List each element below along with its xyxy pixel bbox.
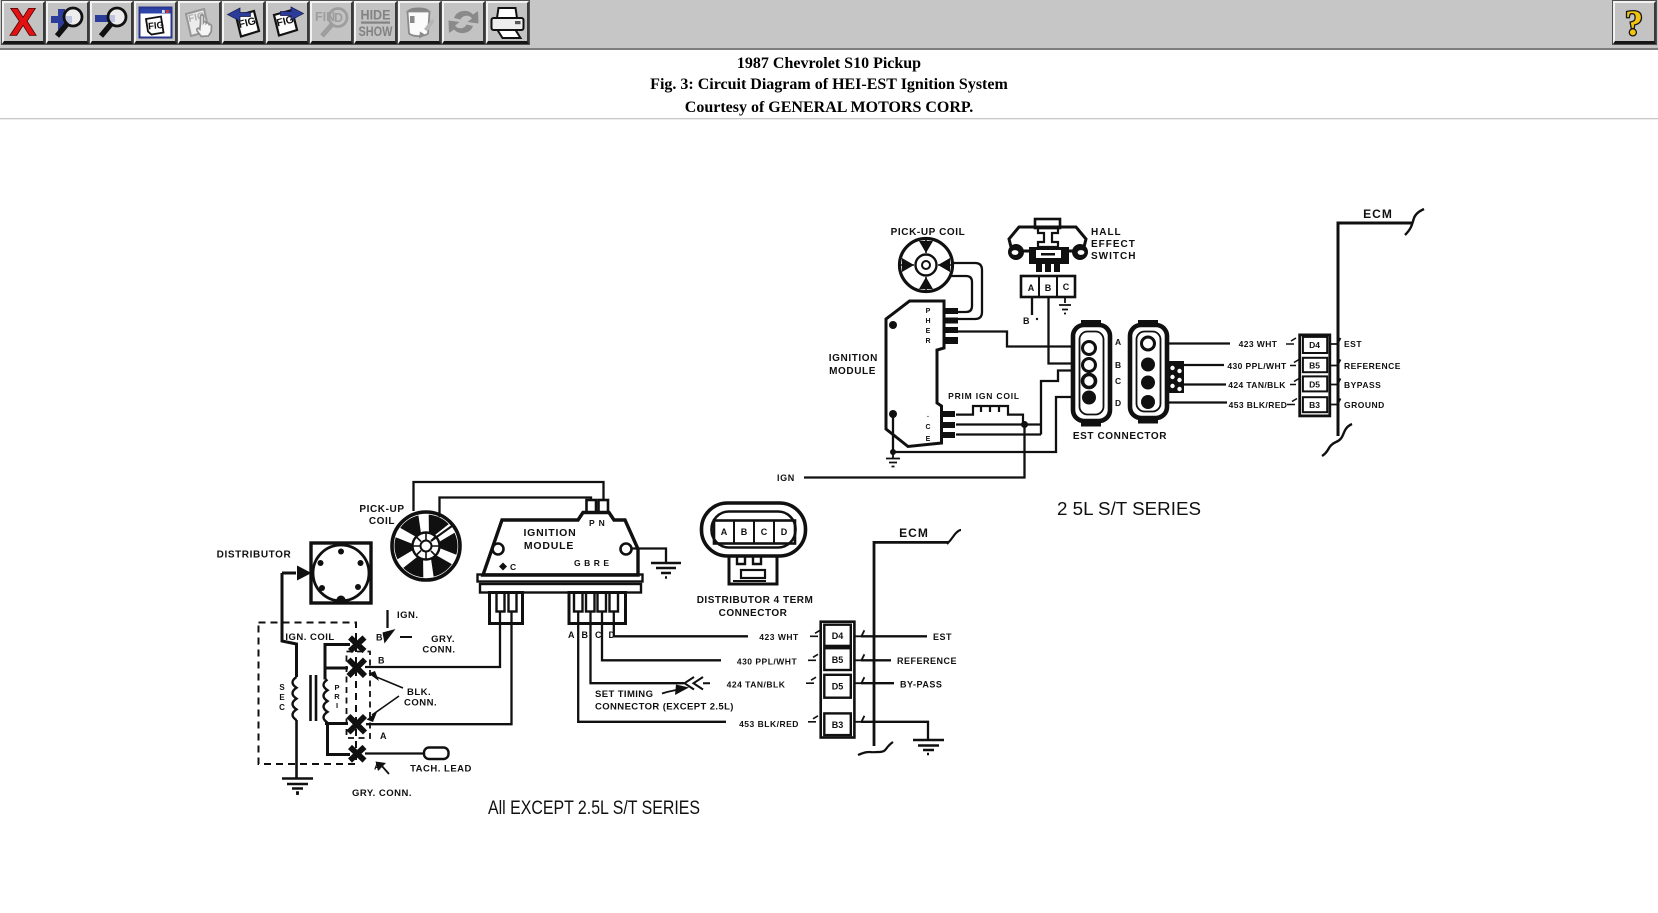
wire 430 PPL/WHT (2.5L)	[1184, 364, 1224, 366]
svg-text:E: E	[926, 328, 931, 335]
wire ticks before pin boxes (2.5L)	[1286, 338, 1299, 405]
svg-text:A: A	[1028, 283, 1035, 293]
right pins A B C D	[574, 593, 583, 612]
svg-text:CONN.: CONN.	[422, 645, 455, 656]
coil core	[311, 675, 317, 721]
ECM pin boxes D4 B5 D5 B3 (exc 2.5L)	[824, 625, 851, 735]
wire distributor down to ign coil	[282, 573, 297, 677]
hall effect switch	[1008, 219, 1088, 272]
pin function labels (2.5L)	[1344, 339, 1401, 410]
wire REFERENCE row	[861, 659, 891, 661]
svg-text:ECM: ECM	[899, 526, 929, 540]
wire pri bottom to GRY CONN A	[328, 724, 351, 755]
distributor 4 term connector	[702, 503, 806, 584]
module mounting hole (bottom)	[889, 410, 897, 418]
wire 423 WHT (exc 2.5L) from pin D	[614, 612, 748, 637]
svg-text:E: E	[926, 436, 931, 443]
svg-text:C: C	[761, 527, 768, 537]
ECM bracket (2.5L)	[1338, 223, 1413, 436]
blk conn pointer arrows	[372, 676, 403, 715]
svg-text:COIL: COIL	[369, 516, 395, 527]
wire module C pin node	[956, 371, 1073, 435]
module pins P N	[587, 500, 597, 513]
ECM connector lock block	[1167, 361, 1184, 393]
svg-text:CONNECTOR: CONNECTOR	[719, 608, 788, 619]
svg-text:B: B	[376, 633, 383, 643]
wire 430 PPL/WHT (exc 2.5L) from pin C	[602, 612, 721, 661]
svg-text:EST: EST	[1344, 339, 1362, 349]
svg-text:GBRE: GBRE	[574, 558, 613, 568]
left pin connector shell	[490, 593, 523, 624]
ground symbol below module	[886, 452, 900, 467]
left pins	[497, 593, 505, 612]
svg-text:B: B	[1023, 316, 1030, 326]
pin letters A B C D (EST)	[1115, 337, 1121, 408]
svg-text:B: B	[378, 656, 385, 666]
svg-text:PRIM IGN COIL: PRIM IGN COIL	[948, 391, 1020, 401]
svg-text:IGN: IGN	[777, 473, 795, 483]
svg-text:D: D	[1115, 398, 1121, 408]
svg-text:A: A	[1115, 337, 1121, 347]
wire module to ground (right)	[632, 549, 666, 563]
wire labels (2.5L)	[1227, 339, 1287, 410]
svg-text:EST CONNECTOR: EST CONNECTOR	[1073, 431, 1167, 442]
ECM break squiggle (bottom)	[1322, 424, 1352, 456]
IGN feed wire with arrow	[386, 610, 388, 628]
right pin connector shell	[569, 593, 626, 624]
svg-text:423 WHT: 423 WHT	[759, 632, 799, 642]
wire module left pin 2 to BLK CONN A	[366, 612, 512, 725]
svg-text:I: I	[336, 701, 338, 710]
wire hall B to EST connector B	[1049, 297, 1074, 364]
svg-text:All EXCEPT 2.5L S/T SERIES: All EXCEPT 2.5L S/T SERIES	[488, 797, 700, 819]
svg-text:.: .	[927, 412, 929, 419]
blk connector A (bowtie)	[349, 716, 366, 733]
label + C	[499, 563, 507, 571]
svg-text:B5: B5	[832, 655, 844, 665]
module ground pin wire	[893, 397, 1073, 452]
gry conn A pointer arrow	[381, 765, 389, 774]
wire 424 TAN/BLK (exc 2.5L) from pin B	[591, 612, 685, 684]
svg-text:D5: D5	[832, 682, 844, 692]
svg-text:453 BLK/RED: 453 BLK/RED	[1229, 400, 1288, 410]
ECM break slash (exc 2.5L)	[947, 530, 961, 544]
svg-text:430 PPL/WHT: 430 PPL/WHT	[737, 657, 798, 667]
svg-text:S: S	[279, 683, 285, 692]
label GRY. CONN. (top)	[422, 634, 455, 656]
gry connector A (bowtie)	[350, 747, 365, 761]
ECM bracket (exc 2.5L)	[874, 542, 948, 746]
blk conn dashed box	[347, 652, 371, 739]
svg-text:TACH. LEAD: TACH. LEAD	[410, 764, 472, 775]
distributor	[311, 543, 371, 605]
svg-text:D4: D4	[1309, 340, 1320, 350]
svg-text:PICK-UP: PICK-UP	[359, 504, 404, 515]
label HALL EFFECT SWITCH	[1091, 227, 1136, 262]
svg-text:MODULE: MODULE	[829, 366, 876, 377]
svg-text:424 TAN/BLK: 424 TAN/BLK	[1228, 380, 1286, 390]
wire IGN feed	[804, 425, 1025, 478]
wire GROUND row to ground	[861, 722, 928, 739]
junction dot module ground	[890, 449, 896, 455]
wire pick-up coil to module pin N (outer)	[414, 482, 604, 511]
svg-text:R: R	[334, 692, 340, 701]
svg-text:REFERENCE: REFERENCE	[897, 656, 957, 666]
secondary winding	[293, 677, 297, 720]
ignition module (exc 2.5L)	[483, 513, 638, 576]
ECM break squiggle (exc 2.5L)	[858, 742, 893, 755]
wire 423 WHT (2.5L)	[1167, 342, 1230, 344]
svg-text:B3: B3	[1309, 400, 1320, 410]
svg-text:DISTRIBUTOR: DISTRIBUTOR	[217, 550, 292, 561]
label IGNITION MODULE (2.5L)	[829, 353, 878, 377]
ground symbol (exc 2.5L ECM)	[913, 740, 944, 754]
pick-up coil (exc 2.5L)	[392, 512, 460, 580]
wire 424 TAN/BLK (2.5L)	[1184, 383, 1226, 385]
svg-text:IGNITION: IGNITION	[829, 353, 878, 364]
svg-text:GRY.: GRY.	[431, 634, 455, 645]
svg-text:IGN. COIL: IGN. COIL	[285, 632, 334, 643]
svg-text:EST: EST	[933, 632, 952, 642]
pin function labels (exc 2.5L)	[897, 632, 957, 690]
svg-text:E: E	[279, 693, 285, 702]
svg-text:BY-PASS: BY-PASS	[900, 680, 942, 690]
svg-text:REFERENCE: REFERENCE	[1344, 361, 1401, 371]
wire pri tap to BLK CONN B	[325, 667, 348, 670]
svg-text:B: B	[1115, 360, 1121, 370]
label SET TIMING CONNECTOR	[595, 689, 734, 713]
svg-text:P: P	[926, 308, 931, 315]
svg-text:IGN.: IGN.	[397, 610, 419, 621]
label BLK. CONN.	[404, 687, 437, 709]
svg-text:EFFECT: EFFECT	[1091, 239, 1136, 250]
wire module R pin to EST connector A	[957, 332, 1073, 347]
wire 453 BLK/RED (exc 2.5L) from pin A	[578, 612, 726, 722]
svg-text:430 PPL/WHT: 430 PPL/WHT	[1227, 361, 1287, 371]
ign coil dashed box	[259, 623, 357, 765]
ECM connector (2.5L)	[1130, 322, 1167, 422]
svg-text:MODULE: MODULE	[524, 540, 574, 552]
wire pri top to GRY CONN B	[325, 645, 350, 680]
svg-text:BYPASS: BYPASS	[1344, 380, 1381, 390]
pin function hooks (2.5L)	[1330, 338, 1341, 405]
wire labels (exc 2.5L)	[727, 632, 799, 729]
wire EST row to label	[861, 635, 927, 637]
svg-text:C: C	[925, 424, 930, 431]
wire module left pin 1 to BLK CONN B	[365, 612, 500, 668]
svg-text:H: H	[925, 318, 930, 325]
svg-text:GROUND: GROUND	[1344, 400, 1385, 410]
set timing pointer arrow	[662, 690, 676, 694]
svg-text:CONNECTOR (EXCEPT 2.5L): CONNECTOR (EXCEPT 2.5L)	[595, 702, 734, 713]
ground stub below hall C	[1059, 297, 1071, 314]
svg-text:A: A	[721, 527, 728, 537]
svg-text:C: C	[279, 703, 285, 712]
svg-text:C: C	[1063, 282, 1070, 292]
ground symbol below ign coil	[282, 779, 313, 796]
wire pick-up coil to module pin (inner)	[949, 276, 972, 312]
wire pick-up coil to module pin P (inner)	[440, 498, 592, 518]
prim ign coil winding	[956, 406, 1023, 425]
svg-text:D: D	[781, 527, 788, 537]
set timing connector chevrons	[685, 677, 711, 690]
blk connector B (bowtie)	[349, 660, 366, 677]
wire distributor feed with arrow	[282, 572, 296, 575]
svg-text:C: C	[1115, 376, 1121, 386]
pin function hooks (exc 2.5L)	[854, 630, 864, 722]
label S E C	[279, 683, 285, 712]
wire hall A to B+ stub	[1031, 297, 1033, 315]
tach lead wire	[365, 752, 424, 754]
module mounting hole (top)	[889, 321, 897, 329]
svg-text:SWITCH: SWITCH	[1091, 251, 1136, 262]
label IGNITION MODULE (exc 2.5L)	[523, 527, 576, 552]
module pins C E (lower)	[942, 411, 955, 438]
wire pri bottom to BLK CONN A	[325, 722, 348, 725]
svg-text:D5: D5	[1309, 380, 1320, 390]
svg-text:B3: B3	[832, 720, 844, 730]
svg-text:C: C	[510, 562, 516, 572]
label P R I	[334, 683, 340, 710]
svg-text:B: B	[1045, 283, 1052, 293]
svg-text:PICK-UP COIL: PICK-UP COIL	[891, 227, 966, 238]
label DISTRIBUTOR 4 TERM CONNECTOR	[697, 595, 814, 619]
svg-text:GRY. CONN.: GRY. CONN.	[352, 788, 412, 799]
module mounting plate upper	[478, 575, 643, 582]
svg-text:423 WHT: 423 WHT	[1239, 339, 1278, 349]
svg-text:424 TAN/BLK: 424 TAN/BLK	[727, 680, 786, 690]
svg-text:IGNITION: IGNITION	[523, 527, 576, 539]
hall connector A-B-C box	[1021, 276, 1075, 297]
svg-text:ECM: ECM	[1363, 207, 1393, 221]
wire ticks before pin boxes (exc 2.5L)	[806, 630, 820, 722]
label PICK-UP COIL (exc 2.5L)	[359, 504, 404, 527]
module mounting plate lower	[480, 584, 641, 593]
svg-text:CONN.: CONN.	[404, 698, 437, 709]
tach lead terminal	[424, 748, 449, 760]
svg-text:PN: PN	[589, 518, 609, 528]
svg-text:B: B	[741, 527, 748, 537]
svg-text:453 BLK/RED: 453 BLK/RED	[739, 719, 799, 729]
module pins P H E R	[944, 308, 958, 344]
wire 453 BLK/RED (2.5L)	[1167, 401, 1227, 403]
svg-text:P: P	[334, 683, 339, 692]
svg-text:2 5L S/T SERIES: 2 5L S/T SERIES	[1057, 499, 1201, 519]
module hole left	[493, 544, 504, 555]
junction dot prim coil node	[1021, 421, 1028, 428]
svg-text:BLK.: BLK.	[407, 687, 431, 698]
svg-text:SET TIMING: SET TIMING	[595, 689, 653, 700]
ECM break slash (top)	[1405, 209, 1424, 235]
svg-text:R: R	[925, 338, 930, 345]
ground symbol right of module	[651, 563, 681, 578]
EST connector (harness side)	[1073, 322, 1110, 425]
module hole right	[621, 544, 632, 555]
svg-text:D4: D4	[832, 631, 844, 641]
wire pick-up coil to module pin (outer)	[951, 263, 982, 319]
pick-up coil (2.5L)	[900, 239, 953, 292]
primary winding	[324, 680, 328, 723]
wire BY-PASS row	[861, 682, 894, 684]
ECM pin box housing (exc 2.5L)	[821, 622, 855, 738]
wire sec winding to ground	[295, 720, 298, 778]
ignition module (2.5L)	[886, 301, 944, 447]
svg-text:DISTRIBUTOR 4 TERM: DISTRIBUTOR 4 TERM	[697, 595, 814, 606]
ECM pin boxes D4 B5 D5 B3 (2.5L)	[1300, 335, 1330, 416]
svg-text:B5: B5	[1309, 361, 1320, 371]
svg-text:A: A	[380, 731, 387, 741]
gry connector B (bowtie)	[350, 638, 365, 652]
svg-text:HALL: HALL	[1091, 227, 1122, 238]
